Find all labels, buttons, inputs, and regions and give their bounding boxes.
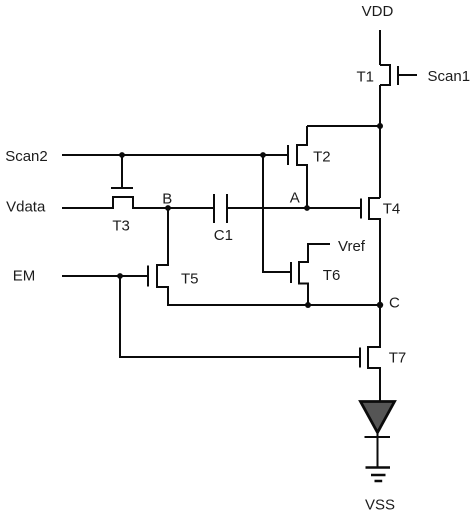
svg-text:A: A xyxy=(290,190,300,207)
svg-text:B: B xyxy=(162,191,172,208)
svg-text:Vref: Vref xyxy=(338,238,366,255)
svg-text:Vdata: Vdata xyxy=(6,199,46,216)
svg-text:T2: T2 xyxy=(313,149,331,166)
svg-text:C1: C1 xyxy=(214,227,233,244)
svg-text:T3: T3 xyxy=(112,218,130,235)
svg-text:T7: T7 xyxy=(389,350,407,367)
svg-text:T4: T4 xyxy=(383,201,401,218)
svg-text:C: C xyxy=(389,295,400,312)
svg-text:VSS: VSS xyxy=(365,497,395,514)
svg-text:T5: T5 xyxy=(181,271,199,288)
svg-text:T1: T1 xyxy=(356,69,374,86)
svg-text:VDD: VDD xyxy=(362,3,394,20)
svg-text:Scan2: Scan2 xyxy=(5,148,48,165)
svg-text:EM: EM xyxy=(13,268,36,285)
svg-text:T6: T6 xyxy=(323,267,341,284)
svg-text:Scan1: Scan1 xyxy=(428,68,471,85)
